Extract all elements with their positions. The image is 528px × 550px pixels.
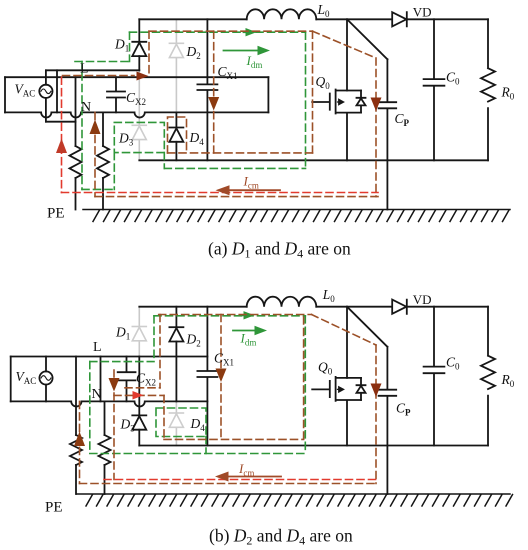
resistor LISN-N (b) xyxy=(99,435,111,465)
brown box around D4 (a) xyxy=(168,117,187,153)
svg-text:(a) D1 and D4 are on: (a) D1 and D4 are on xyxy=(208,239,351,261)
gray inactive leg of D3 (a) xyxy=(138,70,140,160)
resistor LISN-N (a) xyxy=(97,146,109,178)
AC source VAC circle (b) xyxy=(39,371,52,384)
svg-text:N: N xyxy=(81,100,91,115)
wire brown up right of D1 (a) xyxy=(148,31,150,75)
inductor L0 (b) xyxy=(247,297,317,307)
wire brown right vertical (a) xyxy=(312,31,314,153)
diode D1 symbol (black, on) xyxy=(132,41,146,43)
green differential-mode dashed path (b) xyxy=(90,316,305,454)
diode VD (b) xyxy=(392,300,407,314)
wire top rail mid (a) xyxy=(316,18,392,20)
green box around D4 (b) xyxy=(156,408,206,437)
svg-text:L: L xyxy=(93,340,102,355)
wire brown mid vertical (b) xyxy=(163,395,165,439)
transistor Q0 MOSFET (a) xyxy=(312,90,361,161)
resistor R0 (a) xyxy=(481,19,495,160)
body diode of Q0 (b) xyxy=(357,378,366,400)
capacitor CX1 (b) xyxy=(197,307,217,446)
diode D4 symbol (black, on) xyxy=(169,112,183,127)
wire branch2 lower to PE (a) xyxy=(102,178,104,210)
wire bridge leg1 lower (b) xyxy=(138,357,140,416)
wire branch1 (b) xyxy=(75,357,77,436)
wire brown left vertical at D2 (b) xyxy=(159,315,161,388)
svg-text:VD: VD xyxy=(413,292,432,307)
legend arrow Icm (b) xyxy=(229,476,281,478)
green legend arrow Idm (a) xyxy=(224,50,259,52)
capacitor C0 (b) xyxy=(424,307,445,446)
svg-text:(b) D2 and D4 are on: (b) D2 and D4 are on xyxy=(209,526,353,548)
wire source box left edge (b) xyxy=(10,357,12,402)
transistor Q0 MOSFET (b) xyxy=(312,377,361,446)
wire brown N-level horizontal (b) xyxy=(114,394,164,396)
arrow up on branch1 (b) xyxy=(74,432,85,447)
wire brown bottom horizontal (a) xyxy=(95,196,378,198)
wire green D3-box left extension (a) xyxy=(113,153,115,190)
wire source box inner edge (a) xyxy=(56,70,58,112)
arrow down into CP (a) xyxy=(371,98,382,112)
svg-text:L: L xyxy=(80,62,89,77)
wire brown CX1 vertical (b) xyxy=(220,315,222,442)
capacitor C0 (a) xyxy=(424,19,445,160)
green arrow on top path (b) xyxy=(241,314,248,316)
wire source top lead (a) xyxy=(45,70,47,84)
wire source box right edge (b) xyxy=(100,357,102,402)
diode D2 symbol (gray, off) xyxy=(169,43,183,57)
red/brown common-mode dashed paths (a) xyxy=(63,31,379,196)
wire source box left edge (a) xyxy=(4,77,6,112)
wire top rail left (b) xyxy=(139,306,246,308)
wire top rail right (b) xyxy=(407,306,488,308)
wire branch2 upper (a) xyxy=(102,112,104,146)
diode D4 symbol (gray, off) (b) xyxy=(169,413,183,427)
wire green short vertical (b) xyxy=(153,316,155,362)
wire brown bottom horizontal (b) xyxy=(80,483,379,485)
capacitor CP (a) xyxy=(379,59,397,209)
wire green top horizontal (a) xyxy=(130,31,306,33)
wire line L (b) xyxy=(11,356,208,358)
svg-text:PE: PE xyxy=(45,500,63,516)
wire brown branch2 vertical (b) xyxy=(113,370,115,480)
arrow down on branch2 (b) xyxy=(109,378,120,392)
resistor R0 (b) xyxy=(481,307,495,446)
wire source bottom stub (a) xyxy=(46,121,76,123)
inductor L0 (a) xyxy=(247,9,317,19)
wire brown short horizontal (b) xyxy=(125,387,160,389)
wire source bottom lead (b) xyxy=(45,385,47,402)
wire green bottom link (a) xyxy=(82,188,114,190)
gray inactive leg of D4 (b) xyxy=(175,401,177,445)
green legend arrow Idm (b) xyxy=(233,330,255,332)
wire top rail left (a) xyxy=(139,18,246,20)
wire branch1 lower to PE (a) xyxy=(75,178,77,210)
wire branch2 lower to PE (b) xyxy=(104,465,106,494)
wire green D3-box right extension (a) xyxy=(163,153,165,169)
diode VD (a) xyxy=(392,12,407,26)
wire box top / L extension (a) xyxy=(5,76,268,78)
AC source VAC circle (a) xyxy=(39,85,52,98)
resistor LISN-L (b) xyxy=(70,435,82,465)
wire brown lower horizontal (b) xyxy=(164,438,304,440)
svg-text:PE: PE xyxy=(47,206,65,222)
wire branch1 upper (a) xyxy=(75,77,77,146)
arrow down on CX1 brown line (a) xyxy=(208,97,219,111)
wire branch2 (b) xyxy=(104,401,106,435)
wire diagonal to CP (b) xyxy=(347,307,387,347)
wire brown CP vertical (b) xyxy=(375,345,377,484)
diode D3 symbol (gray, off) xyxy=(132,125,146,139)
wire branch1 lower to PE (b) xyxy=(75,465,77,494)
gray inactive leg of D2 (a) xyxy=(175,19,177,112)
arrow up on red branch1 (a) xyxy=(56,139,67,154)
wire D2 anode to N (b) xyxy=(175,342,177,402)
arrow right on L wire (a) xyxy=(137,72,149,81)
arrow right on N wire (b) xyxy=(133,391,144,400)
wire green up left of D1 (a) xyxy=(129,32,131,61)
wire source bottom lead (a) xyxy=(45,98,47,122)
wire brown CP vertical (a) xyxy=(375,58,377,197)
capacitor CP (b) xyxy=(379,347,397,494)
wire brown top horizontal (b) xyxy=(159,314,312,316)
wire source-loop right edge (a) xyxy=(267,77,269,112)
wire bridge leg1 upper (a) xyxy=(138,19,140,42)
wire brown lower horizontal (a) xyxy=(168,152,313,154)
wire Q0 drain vertical (a) xyxy=(346,19,348,90)
wire brown diagonal to CP (b) xyxy=(312,315,377,346)
wire brown branch2 vertical (a) xyxy=(94,112,96,196)
wire red bottom horizontal (b) xyxy=(104,479,378,481)
capacitor CX2 (b) xyxy=(118,357,136,402)
ground PE hatched earth line (b) xyxy=(77,494,513,506)
arrow down on CX1 brown line (b) xyxy=(216,369,227,383)
wire bottom rail (b) xyxy=(139,445,488,447)
wire line L (a) xyxy=(46,69,139,71)
capacitor CX2 (a) xyxy=(107,77,125,112)
wire bottom rail (a) xyxy=(139,159,488,161)
wire brown CX1 vertical (a) xyxy=(213,31,215,153)
wire green along L (a) xyxy=(75,61,130,63)
body diode of Q0 (a) xyxy=(357,91,366,113)
green differential-mode dashed path (a) xyxy=(75,32,306,189)
wire Q0 drain vertical (b) xyxy=(346,307,348,378)
wire green right vertical (b) xyxy=(304,316,306,454)
wire source top lead (b) xyxy=(45,357,47,372)
svg-text:VD: VD xyxy=(413,4,432,19)
capacitor CX1 (a) xyxy=(197,19,217,160)
wire brown branch1 vertical (b) xyxy=(79,401,81,483)
gray inactive leg of D1 (b) xyxy=(138,307,140,357)
ground PE hatched earth line (a) xyxy=(83,210,510,222)
wire neutral N (b) with hop bump xyxy=(11,401,208,406)
wire brown diagonal to CP (a) xyxy=(313,31,377,58)
wire top rail right (a) xyxy=(407,18,488,20)
wire green along L (b) xyxy=(90,361,154,363)
wire brown top horizontal (a) xyxy=(149,30,313,32)
wire green right vertical (a) xyxy=(305,32,307,168)
green box around D3 (a) xyxy=(114,122,164,152)
wire bridge leg2 upper (b) xyxy=(175,307,177,328)
wire brown along L (a) xyxy=(63,75,135,77)
wire green bottom horizontal (b) xyxy=(90,453,305,455)
diode D2 symbol (black, on) (b) xyxy=(169,326,183,328)
arrow down into CP (b) xyxy=(371,384,382,398)
diode D1 symbol (gray, off) (b) xyxy=(132,327,146,341)
svg-text:N: N xyxy=(92,387,102,402)
green arrow on top path (a) xyxy=(244,31,251,33)
wire red branch1 vertical (a) xyxy=(61,77,63,192)
wire green top horizontal (b) xyxy=(154,315,305,317)
wire D1 anode to L node xyxy=(138,56,140,70)
wire green lower horizontal (a) xyxy=(164,167,305,169)
wire red bottom horizontal (a) xyxy=(62,192,379,194)
legend arrow Icm (a) xyxy=(229,189,280,191)
wire green left vertical (a) xyxy=(81,62,83,190)
resistor LISN-L (a) xyxy=(70,146,82,178)
wire neutral N (a) with hop bumps xyxy=(5,112,268,117)
arrow up on brown branch2 (a) xyxy=(90,120,101,135)
wire green D4-box right extension (b) xyxy=(205,437,207,454)
wire diagonal to CP (a) xyxy=(347,19,387,59)
red/brown common-mode dashed paths (b) xyxy=(80,315,379,484)
wire top rail mid (b) xyxy=(316,306,392,308)
diode D3 symbol (black, on) (b) xyxy=(132,414,146,416)
wire green left vertical (b) xyxy=(89,362,91,454)
wire brown right vertical (b) xyxy=(303,317,305,439)
